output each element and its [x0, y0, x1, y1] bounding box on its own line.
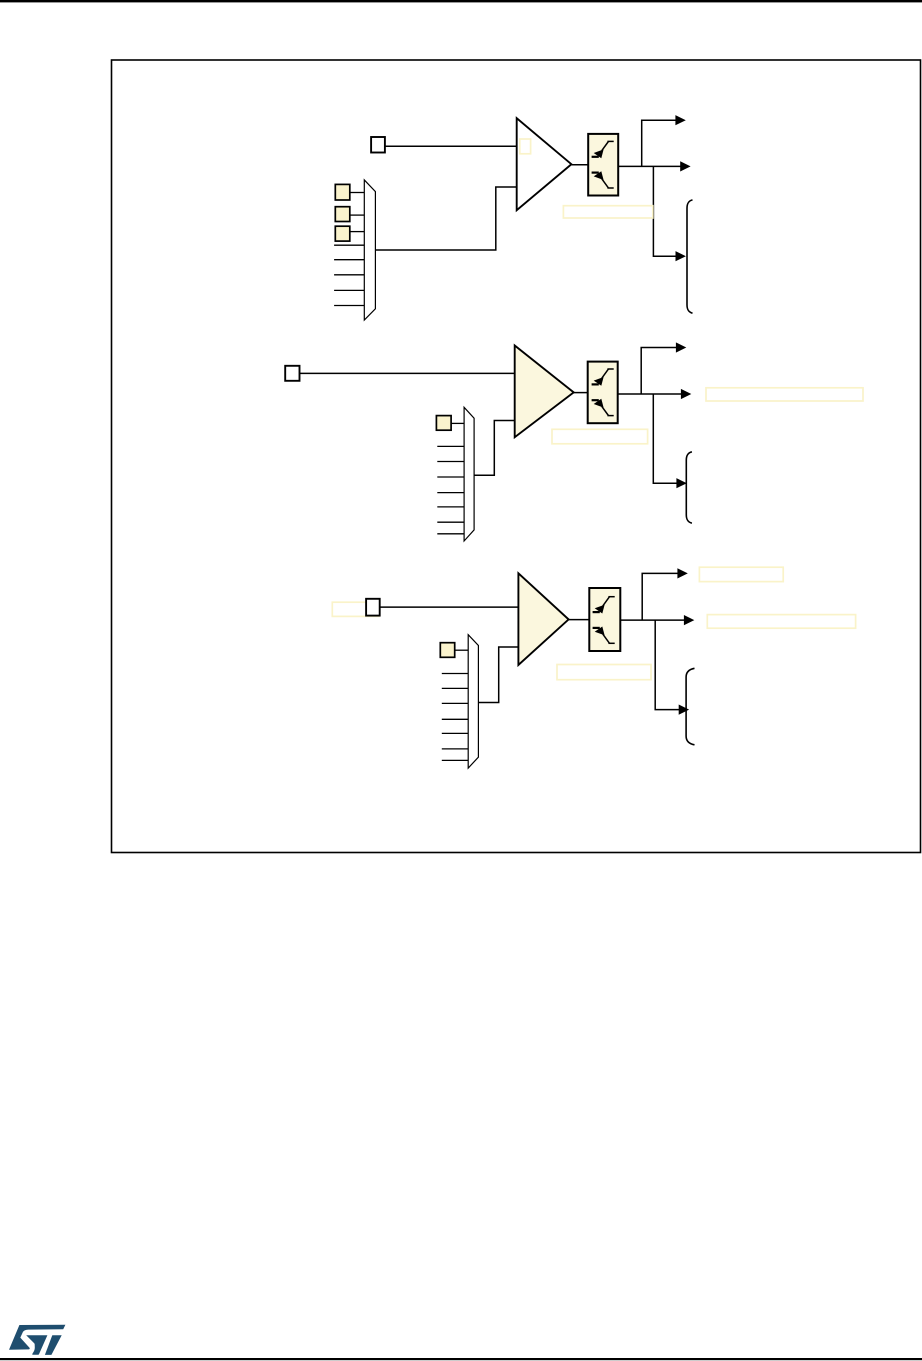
analog mux MUX2 [464, 407, 474, 541]
wire MUX1 input 6 [334, 274, 364, 276]
option square K2 [335, 207, 350, 222]
wire MUX1 to U1 [375, 187, 516, 250]
ES falling-edge icon [592, 171, 614, 188]
wire P1 to U1 [385, 145, 517, 147]
label placeholder under ES1 [563, 206, 652, 218]
output arrow 3 [676, 478, 686, 488]
input pin pad P1 [371, 137, 385, 153]
wire MUX3 input 4 [442, 702, 468, 704]
output arrow 2 [680, 161, 690, 171]
wire U3 to ES3 [569, 619, 590, 621]
edge-select block ES3 [589, 588, 620, 651]
label placeholder right of output 2 [707, 615, 855, 629]
ST logo [9, 1325, 65, 1355]
wire branch up to output 1 [642, 120, 676, 166]
wire MUX1 input 4 [334, 244, 364, 246]
wire K3 to MUX1 [350, 231, 365, 233]
ES3 rising-edge icon [593, 597, 615, 614]
wire MUX3 to U3 [478, 647, 518, 703]
wire branch down to output 3 [653, 394, 676, 483]
option square K4 [436, 416, 451, 431]
brace 3 [686, 668, 694, 745]
ES falling-edge icon [592, 399, 614, 416]
wire K2 to MUX1 [350, 214, 365, 216]
wire U2 to ES2 [574, 392, 588, 394]
brace 2 [686, 452, 692, 523]
footer rule [0, 1358, 922, 1360]
output arrow 2 [681, 389, 691, 399]
label placeholder under U2 [552, 429, 648, 444]
wire MUX1 input 7 [334, 289, 364, 291]
wire MUX2 input 5 [437, 492, 464, 494]
wire MUX3 input 3 [442, 687, 468, 689]
figure frame [112, 60, 921, 853]
header rule [0, 0, 922, 2]
wire MUX1 input 5 [334, 259, 364, 261]
wire MUX2 to U2 [474, 421, 515, 476]
output arrow 1 [677, 568, 687, 578]
input pin pad P3 [366, 599, 380, 616]
analog mux MUX3 [468, 635, 478, 768]
option square K5 [440, 643, 454, 658]
wire MUX2 input 7 [437, 521, 464, 523]
wire MUX3 input 5 [442, 718, 468, 720]
wire MUX2 input 2 [437, 445, 464, 447]
wire MUX2 input 4 [437, 476, 464, 478]
wire branch down to output 3 [655, 620, 679, 710]
wire U1 to ES1 [571, 164, 588, 166]
wire MUX2 input 3 [437, 461, 464, 463]
wire ES3 output [620, 619, 684, 621]
wire ES1 output [618, 165, 680, 167]
wire MUX1 input 8 [334, 305, 364, 307]
ES1 rising-edge icon [592, 141, 614, 158]
comparator U3 [518, 573, 568, 665]
wire P2 to U2 [300, 372, 515, 374]
wire K4 to MUX2 [451, 422, 464, 424]
output arrow 1 [675, 115, 685, 125]
label placeholder right of output 1 [699, 567, 783, 581]
ES2 rising-edge icon [592, 369, 614, 386]
option square K3 [335, 226, 350, 241]
wire MUX2 input 6 [437, 506, 464, 508]
wire MUX3 input 7 [442, 748, 468, 750]
label placeholder in U1 [520, 139, 531, 154]
wire MUX3 input 8 [442, 759, 468, 761]
edge-select block ES1 [588, 134, 618, 196]
wire MUX3 input 6 [442, 732, 468, 734]
output arrow 2 [684, 615, 694, 625]
comparator U1 [517, 118, 572, 210]
wire K1 to MUX1 [350, 192, 365, 194]
wire MUX2 input 8 [437, 533, 464, 535]
output arrow 3 [679, 705, 689, 715]
input pin pad P2 [285, 366, 299, 381]
wire P3 to U3 [380, 606, 519, 608]
wire branch down to output 3 [653, 166, 676, 256]
output arrow 1 [676, 342, 686, 352]
analog mux MUX1 [364, 180, 375, 320]
ES falling-edge icon [593, 627, 615, 644]
wire branch up to output 1 [642, 573, 678, 620]
label placeholder right of output 2 [706, 388, 863, 401]
wire MUX3 input 2 [442, 673, 468, 675]
brace 1 [687, 200, 693, 313]
label placeholder left of P3 [332, 602, 379, 616]
comparator U2 [515, 346, 574, 438]
wire K5 to MUX3 [455, 649, 469, 651]
label placeholder under U3 [557, 665, 651, 680]
wire branch up to output 1 [641, 348, 676, 395]
edge-select block ES2 [588, 362, 618, 424]
wire ES2 output [618, 393, 682, 395]
option square K1 [335, 184, 350, 200]
output arrow 3 [676, 251, 686, 261]
